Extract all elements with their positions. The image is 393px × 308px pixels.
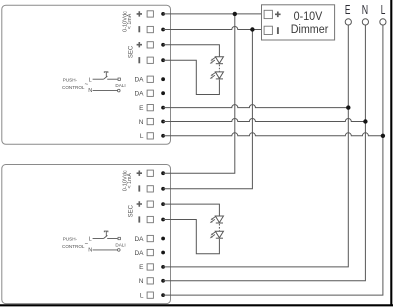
svg-text:Dimmer: Dimmer xyxy=(291,23,329,36)
svg-text:L: L xyxy=(381,4,386,18)
svg-text:0-10V: 0-10V xyxy=(294,10,323,23)
svg-text:E: E xyxy=(345,4,351,18)
svg-text:N: N xyxy=(362,4,368,18)
